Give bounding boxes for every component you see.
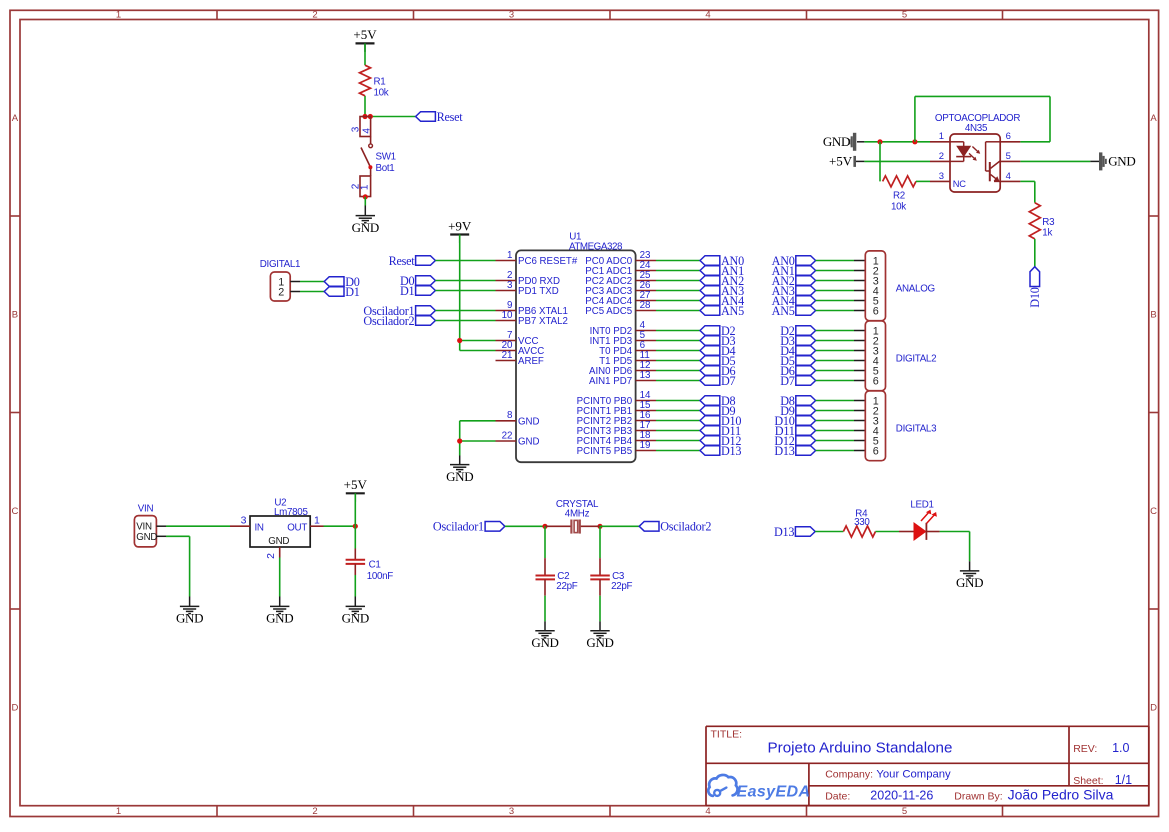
net label Oscilador1 bbox=[363, 304, 435, 318]
svg-text:GND: GND bbox=[268, 536, 289, 547]
svg-text:3: 3 bbox=[509, 806, 514, 817]
net label D1 bbox=[400, 284, 435, 298]
wire bbox=[854, 440, 865, 442]
wire bbox=[544, 526, 546, 575]
svg-text:100nF: 100nF bbox=[367, 571, 394, 582]
wire bbox=[599, 526, 601, 575]
svg-text:5: 5 bbox=[1006, 151, 1011, 162]
svg-text:C: C bbox=[11, 506, 18, 517]
svg-text:SW1: SW1 bbox=[376, 152, 396, 163]
wire bbox=[656, 450, 700, 452]
net label D9 bbox=[780, 404, 815, 418]
wire bbox=[854, 350, 865, 352]
svg-text:AN5: AN5 bbox=[721, 304, 744, 318]
svg-text:Projeto Arduino Standalone: Projeto Arduino Standalone bbox=[768, 739, 953, 756]
wire bbox=[279, 558, 281, 597]
net label AN2 bbox=[772, 274, 816, 288]
net label D4 bbox=[780, 344, 815, 358]
svg-text:4MHz: 4MHz bbox=[565, 508, 590, 519]
wire bbox=[656, 270, 700, 272]
wire bbox=[854, 310, 865, 312]
svg-text:A: A bbox=[1150, 113, 1157, 124]
net label AN1 bbox=[772, 264, 816, 278]
wire bbox=[656, 310, 700, 312]
wire bbox=[854, 340, 865, 342]
svg-text:REV:: REV: bbox=[1073, 743, 1097, 755]
capacitor C3 bbox=[590, 571, 632, 592]
wire bbox=[854, 290, 865, 292]
net label AN2 bbox=[700, 274, 744, 288]
wire bbox=[1090, 160, 1099, 162]
svg-text:+5V: +5V bbox=[829, 154, 853, 169]
net label D13 bbox=[774, 444, 815, 458]
wire bbox=[854, 380, 865, 382]
svg-text:Reset: Reset bbox=[437, 110, 464, 124]
svg-text:GND: GND bbox=[586, 635, 613, 650]
net label AN0 bbox=[772, 254, 816, 268]
resistor R4 bbox=[843, 509, 875, 537]
wire bbox=[854, 430, 865, 432]
ground bbox=[446, 456, 473, 484]
wire bbox=[916, 180, 930, 182]
svg-text:3: 3 bbox=[241, 515, 247, 527]
svg-text:GND: GND bbox=[352, 220, 379, 235]
svg-text:DIGITAL1: DIGITAL1 bbox=[260, 259, 300, 270]
wire bbox=[656, 440, 700, 442]
svg-text:D1: D1 bbox=[400, 284, 415, 298]
wire bbox=[816, 410, 854, 412]
ground bbox=[956, 561, 983, 590]
wire bbox=[816, 300, 854, 302]
wire bbox=[1034, 239, 1036, 267]
net label D8 bbox=[780, 394, 815, 408]
ground bbox=[176, 597, 203, 626]
wire bbox=[879, 142, 881, 182]
svg-text:3: 3 bbox=[509, 10, 514, 21]
svg-text:10k: 10k bbox=[891, 202, 906, 213]
wire bbox=[364, 197, 366, 206]
svg-text:4: 4 bbox=[705, 806, 710, 817]
net label AN4 bbox=[772, 294, 816, 308]
net label D8 bbox=[700, 394, 736, 408]
wire bbox=[656, 420, 700, 422]
svg-text:2: 2 bbox=[939, 151, 944, 162]
svg-text:1k: 1k bbox=[1042, 228, 1052, 239]
LED LED1 bbox=[910, 500, 937, 540]
svg-text:3: 3 bbox=[507, 280, 513, 291]
svg-text:GND: GND bbox=[518, 437, 540, 448]
junction bbox=[362, 114, 373, 119]
crystal 4MHz bbox=[545, 499, 600, 534]
svg-text:GND: GND bbox=[136, 532, 157, 543]
svg-text:DIGITAL2: DIGITAL2 bbox=[896, 354, 936, 365]
ground bbox=[352, 206, 379, 235]
svg-text:2: 2 bbox=[265, 553, 277, 559]
wire bbox=[354, 493, 356, 526]
wire bbox=[599, 579, 601, 621]
wire bbox=[816, 270, 854, 272]
svg-text:C: C bbox=[1150, 506, 1157, 517]
wire bbox=[816, 450, 854, 452]
capacitor C1 bbox=[346, 560, 394, 582]
regulator U2 Lm7805 bbox=[230, 498, 324, 559]
svg-text:Sheet:: Sheet: bbox=[1073, 775, 1103, 787]
power GND (bar) bbox=[823, 133, 855, 151]
svg-text:Date:: Date: bbox=[825, 790, 850, 802]
wire bbox=[505, 525, 545, 527]
wire bbox=[816, 430, 854, 432]
wire bbox=[600, 525, 639, 527]
svg-text:PCINT5 PB5: PCINT5 PB5 bbox=[577, 446, 632, 457]
wire bbox=[854, 330, 865, 332]
net label AN1 bbox=[700, 264, 744, 278]
wire bbox=[854, 280, 865, 282]
svg-text:5: 5 bbox=[902, 10, 907, 21]
svg-text:Bot1: Bot1 bbox=[376, 163, 395, 174]
net label D1 bbox=[324, 285, 360, 299]
svg-text:22pF: 22pF bbox=[556, 581, 577, 592]
net label D3 bbox=[780, 334, 815, 348]
wire bbox=[816, 360, 854, 362]
wire bbox=[656, 400, 700, 402]
wire bbox=[324, 525, 356, 527]
svg-text:R3: R3 bbox=[1042, 217, 1055, 228]
connector VIN bbox=[134, 503, 166, 547]
svg-text:330: 330 bbox=[854, 517, 870, 528]
svg-text:ANALOG: ANALOG bbox=[896, 284, 935, 295]
svg-text:GND: GND bbox=[176, 611, 203, 626]
svg-text:IN: IN bbox=[255, 522, 264, 533]
svg-text:R2: R2 bbox=[893, 191, 905, 202]
wire bbox=[435, 280, 495, 282]
svg-text:TITLE:: TITLE: bbox=[711, 729, 743, 741]
wire bbox=[816, 340, 854, 342]
resistor R2 bbox=[883, 176, 916, 213]
connector DIGITAL1 bbox=[260, 259, 300, 301]
svg-text:Oscilador2: Oscilador2 bbox=[660, 520, 711, 534]
IC U1 ATMEGA328 bbox=[496, 232, 657, 463]
svg-text:4: 4 bbox=[1006, 171, 1011, 182]
net label D12 bbox=[700, 434, 741, 448]
svg-text:VIN: VIN bbox=[138, 503, 154, 514]
svg-text:8: 8 bbox=[507, 410, 513, 421]
wire bbox=[816, 370, 854, 372]
power GND (bar) bbox=[1101, 152, 1136, 170]
wire bbox=[656, 300, 700, 302]
resistor R3 bbox=[1029, 203, 1055, 239]
svg-text:B: B bbox=[1150, 310, 1156, 321]
wire bbox=[364, 43, 366, 116]
net label D2 bbox=[780, 324, 815, 338]
svg-text:GND: GND bbox=[266, 611, 293, 626]
svg-text:PD1 TXD: PD1 TXD bbox=[518, 286, 559, 297]
wire bbox=[656, 360, 700, 362]
svg-text:GND: GND bbox=[518, 417, 540, 428]
svg-text:6: 6 bbox=[1006, 131, 1011, 142]
power +5V bbox=[353, 27, 377, 52]
net label D6 bbox=[780, 364, 815, 378]
connector ANALOG bbox=[865, 251, 935, 321]
svg-text:PC5 ADC5: PC5 ADC5 bbox=[585, 306, 632, 317]
svg-text:6: 6 bbox=[873, 375, 879, 387]
net label AN5 bbox=[772, 304, 816, 318]
wire bbox=[300, 291, 324, 293]
svg-text:1: 1 bbox=[116, 10, 121, 21]
wire bbox=[854, 450, 865, 452]
svg-text:4: 4 bbox=[361, 128, 372, 134]
net label D4 bbox=[700, 344, 736, 358]
wire bbox=[656, 290, 700, 292]
svg-text:EasyEDA: EasyEDA bbox=[737, 783, 811, 800]
connector DIGITAL2 bbox=[865, 321, 936, 391]
wire bbox=[460, 235, 496, 351]
net label AN5 bbox=[700, 304, 744, 318]
junction bbox=[353, 524, 358, 529]
wire bbox=[854, 400, 865, 402]
net label D6 bbox=[700, 364, 736, 378]
svg-text:5: 5 bbox=[902, 806, 907, 817]
svg-text:1/1: 1/1 bbox=[1115, 773, 1132, 787]
svg-text:AIN1 PD7: AIN1 PD7 bbox=[589, 376, 632, 387]
wire bbox=[816, 420, 854, 422]
wire bbox=[166, 536, 190, 596]
wire bbox=[854, 410, 865, 412]
svg-text:1: 1 bbox=[314, 515, 320, 527]
wire bbox=[656, 350, 700, 352]
svg-text:AREF: AREF bbox=[518, 356, 544, 367]
net label Oscilador2 bbox=[363, 314, 435, 328]
svg-text:1: 1 bbox=[507, 250, 512, 261]
svg-text:1: 1 bbox=[359, 184, 370, 190]
wire bbox=[864, 141, 930, 143]
wire bbox=[854, 270, 865, 272]
net label D7 bbox=[780, 374, 815, 388]
net label D3 bbox=[700, 334, 736, 348]
svg-text:D7: D7 bbox=[721, 374, 736, 388]
svg-text:OUT: OUT bbox=[287, 522, 307, 533]
svg-text:LED1: LED1 bbox=[910, 500, 933, 511]
svg-text:10: 10 bbox=[502, 310, 513, 321]
net label D9 bbox=[700, 404, 736, 418]
junction bbox=[457, 338, 462, 343]
svg-text:PC6 RESET#: PC6 RESET# bbox=[518, 256, 578, 267]
power +5V (bar) bbox=[829, 154, 855, 169]
net label Reset bbox=[416, 110, 464, 124]
wire bbox=[816, 310, 854, 312]
svg-text:GND: GND bbox=[956, 575, 983, 590]
wire bbox=[816, 280, 854, 282]
wire bbox=[656, 280, 700, 282]
connector DIGITAL3 bbox=[865, 391, 937, 461]
net label Oscilador1 bbox=[433, 520, 505, 534]
wire bbox=[435, 310, 495, 312]
wire bbox=[656, 260, 700, 262]
net label D10 bbox=[700, 414, 741, 428]
wire bbox=[300, 281, 324, 283]
net label D7 bbox=[700, 374, 736, 388]
power +9V bbox=[448, 218, 472, 243]
svg-text:GND: GND bbox=[446, 469, 473, 484]
net label Reset bbox=[389, 254, 436, 268]
wire bbox=[854, 260, 865, 262]
svg-text:Drawn By:: Drawn By: bbox=[954, 790, 1002, 802]
wire bbox=[354, 526, 356, 559]
wire bbox=[1020, 181, 1034, 202]
wire bbox=[816, 380, 854, 382]
svg-text:2020-11-26: 2020-11-26 bbox=[870, 788, 933, 802]
wire bbox=[435, 260, 495, 262]
svg-text:4: 4 bbox=[705, 10, 710, 21]
wire bbox=[816, 440, 854, 442]
svg-text:6: 6 bbox=[873, 445, 879, 457]
wire bbox=[816, 330, 854, 332]
svg-text:GND: GND bbox=[1108, 154, 1135, 169]
wire bbox=[460, 421, 496, 456]
svg-text:D: D bbox=[1150, 703, 1157, 714]
svg-text:28: 28 bbox=[640, 300, 651, 311]
wire bbox=[656, 340, 700, 342]
svg-text:GND: GND bbox=[531, 635, 558, 650]
wire bbox=[864, 160, 930, 162]
svg-text:DIGITAL3: DIGITAL3 bbox=[896, 424, 937, 435]
junction bbox=[542, 524, 602, 529]
svg-text:D: D bbox=[11, 703, 18, 714]
svg-text:R1: R1 bbox=[374, 77, 386, 88]
svg-text:3: 3 bbox=[939, 171, 944, 182]
ground bbox=[266, 597, 293, 626]
net label D11 bbox=[775, 424, 816, 438]
optocoupler 4N35 bbox=[930, 113, 1020, 192]
net label D12 bbox=[774, 434, 815, 448]
svg-text:D10: D10 bbox=[1028, 287, 1042, 307]
junction bbox=[877, 139, 917, 144]
svg-text:3: 3 bbox=[350, 126, 361, 132]
net label D0 bbox=[324, 275, 360, 289]
svg-text:1.0: 1.0 bbox=[1112, 741, 1129, 755]
wire bbox=[876, 531, 915, 533]
wire bbox=[435, 320, 495, 322]
svg-text:4N35: 4N35 bbox=[965, 123, 988, 134]
svg-text:D13: D13 bbox=[721, 444, 741, 458]
wire bbox=[656, 380, 700, 382]
svg-text:B: B bbox=[12, 310, 18, 321]
wire bbox=[816, 350, 854, 352]
svg-text:GND: GND bbox=[342, 611, 369, 626]
junction bbox=[457, 438, 462, 443]
wire bbox=[354, 564, 356, 597]
switch SW1 Bot1 bbox=[350, 117, 396, 200]
svg-text:Company:: Company: bbox=[825, 769, 873, 781]
svg-text:1: 1 bbox=[939, 131, 944, 142]
svg-text:A: A bbox=[12, 113, 19, 124]
wire bbox=[815, 531, 843, 533]
net label D0 bbox=[400, 274, 435, 288]
wire bbox=[856, 160, 864, 162]
wire bbox=[854, 360, 865, 362]
ground bbox=[531, 621, 558, 650]
wire bbox=[435, 290, 495, 292]
svg-text:Your Company: Your Company bbox=[876, 769, 951, 781]
capacitor C2 bbox=[536, 571, 578, 592]
svg-text:2: 2 bbox=[312, 10, 317, 21]
net label D10 bbox=[1028, 267, 1042, 308]
resistor R1 bbox=[360, 65, 389, 98]
wire bbox=[656, 430, 700, 432]
svg-text:D13: D13 bbox=[774, 525, 794, 539]
net label D2 bbox=[700, 324, 736, 338]
svg-text:22: 22 bbox=[502, 430, 513, 441]
wire bbox=[926, 532, 969, 562]
svg-text:D7: D7 bbox=[780, 374, 795, 388]
net label D5 bbox=[780, 354, 815, 368]
svg-text:AN5: AN5 bbox=[772, 304, 795, 318]
svg-text:2: 2 bbox=[278, 286, 284, 298]
wire bbox=[370, 116, 416, 118]
wire bbox=[544, 579, 546, 621]
svg-text:Oscilador1: Oscilador1 bbox=[433, 520, 484, 534]
wire bbox=[854, 300, 865, 302]
wire bbox=[816, 400, 854, 402]
power +5V bbox=[344, 477, 368, 502]
wire bbox=[816, 290, 854, 292]
svg-text:NC: NC bbox=[953, 179, 966, 189]
svg-text:PB7 XTAL2: PB7 XTAL2 bbox=[518, 316, 568, 327]
svg-text:GND: GND bbox=[823, 134, 850, 149]
title block bbox=[706, 726, 1149, 805]
net label AN3 bbox=[772, 284, 816, 298]
svg-text:13: 13 bbox=[640, 370, 651, 381]
wire bbox=[854, 420, 865, 422]
wire bbox=[816, 260, 854, 262]
svg-text:João Pedro Silva: João Pedro Silva bbox=[1008, 787, 1114, 803]
wire bbox=[656, 370, 700, 372]
net label D13 bbox=[774, 525, 815, 539]
svg-text:6: 6 bbox=[873, 305, 879, 317]
svg-text:10k: 10k bbox=[374, 88, 389, 99]
svg-text:C1: C1 bbox=[369, 560, 381, 571]
net label AN4 bbox=[700, 294, 744, 308]
wire bbox=[854, 370, 865, 372]
svg-text:1: 1 bbox=[116, 806, 121, 817]
net label D5 bbox=[700, 354, 736, 368]
ground bbox=[342, 597, 369, 626]
wire bbox=[166, 525, 230, 527]
svg-text:+5V: +5V bbox=[353, 27, 377, 42]
svg-text:19: 19 bbox=[640, 440, 651, 451]
ground bbox=[586, 621, 613, 650]
svg-text:+5V: +5V bbox=[344, 477, 368, 492]
wire bbox=[857, 141, 864, 143]
svg-text:21: 21 bbox=[502, 350, 513, 361]
svg-text:Oscilador2: Oscilador2 bbox=[363, 314, 414, 328]
net label D10 bbox=[774, 414, 815, 428]
net label AN0 bbox=[700, 254, 744, 268]
svg-text:2: 2 bbox=[312, 806, 317, 817]
net label AN3 bbox=[700, 284, 744, 298]
svg-text:22pF: 22pF bbox=[611, 581, 632, 592]
net label Oscilador2 bbox=[639, 520, 711, 534]
svg-text:Reset: Reset bbox=[389, 254, 416, 268]
net label D11 bbox=[700, 424, 741, 438]
wire bbox=[656, 410, 700, 412]
svg-text:D13: D13 bbox=[774, 444, 794, 458]
svg-text:+9V: +9V bbox=[448, 218, 472, 233]
wire bbox=[1020, 160, 1090, 162]
svg-text:D1: D1 bbox=[345, 285, 360, 299]
net label D13 bbox=[700, 444, 741, 458]
wire bbox=[915, 96, 1050, 141]
wire bbox=[656, 330, 700, 332]
